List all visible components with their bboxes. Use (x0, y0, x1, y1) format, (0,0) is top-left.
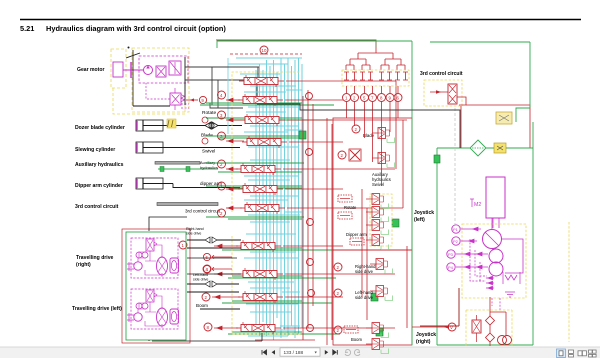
blade pilot valve (372, 128, 395, 143)
nav first-page button (262, 350, 267, 355)
gear motor pump circle (144, 66, 153, 75)
slewing cylinder rod line (163, 147, 240, 149)
green boundary right main vertical (411, 41, 413, 345)
svg-text:side drive: side drive (193, 278, 208, 282)
view mode icon two-up continuous (589, 350, 597, 357)
svg-text:Joystick: Joystick (416, 332, 436, 338)
travelling drive feed line top (149, 217, 187, 231)
valve row 1 rotate spool (239, 75, 284, 87)
gear motor yellow enclosure lower (113, 88, 185, 114)
left-drive pilot valve (370, 286, 393, 301)
circled 2 boom pilot (334, 326, 342, 334)
valve row 6 dipper spool (238, 183, 283, 195)
history forward icon (disabled) (354, 350, 360, 356)
travel drain line bottom (149, 333, 262, 341)
green filter rail (437, 147, 533, 149)
svg-text:side drive: side drive (355, 295, 374, 300)
travelling drive right counterbalance valve (146, 239, 154, 251)
svg-text:M2: M2 (474, 202, 481, 208)
dark link line row2 stub (212, 107, 243, 109)
slewing cylinder symbol (136, 142, 163, 153)
travelling drive green enclosure (126, 232, 186, 340)
svg-text:3rd control circuit: 3rd control circuit (75, 204, 119, 210)
green right rail vertical (532, 122, 534, 345)
gear motor work line A (185, 66, 260, 68)
svg-text:(right): (right) (76, 262, 91, 268)
svg-text:Rotate: Rotate (202, 110, 216, 116)
manifold fitting row (344, 72, 408, 80)
breather symbol (494, 143, 506, 153)
right drive work lines (187, 239, 241, 241)
header rule (20, 19, 581, 21)
3rd control circuit coupling bar (157, 203, 218, 206)
valve row 2 spool (238, 94, 283, 106)
svg-text:Auxiliary hydraulics: Auxiliary hydraulics (75, 162, 124, 168)
svg-text:Boom: Boom (351, 337, 362, 342)
page box dropdown caret (315, 352, 317, 354)
circled numbers right of bank (306, 93, 315, 332)
dark link line A to valve row1 (185, 67, 258, 77)
valve row 8 right-drive spool (236, 240, 281, 252)
right drive lower work line (187, 257, 237, 259)
green connector block row6 (392, 219, 399, 227)
gear motor valve 1 (156, 66, 166, 77)
rotate pilot valve 2 (366, 207, 389, 222)
svg-text:Slewing cylinder: Slewing cylinder (75, 147, 115, 153)
valve row 3 blade spool (240, 114, 285, 126)
rotate pilot group yellow enclosure (370, 194, 392, 246)
circled 2 right-drive pilot (334, 263, 342, 271)
nav next-page button (325, 350, 328, 355)
travelling drive right gearbox (170, 258, 179, 273)
right-drive pilot valve (370, 259, 393, 274)
auxiliary hydraulics green line (158, 168, 218, 170)
green tank return vertical (430, 42, 530, 108)
svg-text:Blade: Blade (201, 133, 213, 138)
travelling drive left internal lines (138, 296, 162, 328)
travelling drive left magenta enclosure (131, 289, 178, 329)
dark link line B to filter (257, 104, 460, 148)
rotate pilot valve 3 (366, 220, 389, 235)
gear motor valve 2 (169, 61, 181, 75)
manifold circled digits (345, 96, 400, 101)
dipper pilot valve (366, 235, 389, 250)
3rd control inlet arrow (430, 91, 448, 93)
joystick left red enclosure (333, 118, 412, 250)
joystick right red enclosure (333, 250, 412, 345)
travelling drive right charge pumps (136, 252, 142, 258)
boom black line (200, 308, 240, 310)
pump regulator dashed lines (470, 239, 487, 282)
circled 10 top (260, 46, 268, 54)
gear motor yellow enclosure large (132, 48, 189, 112)
boom pilot valve lower (366, 339, 389, 354)
manifold outlet drops below circles (347, 102, 399, 186)
valve row 4 swivel spool (242, 136, 287, 148)
rotate pilot block B (338, 212, 352, 219)
red work lines from valves to joystick side (283, 81, 407, 328)
green connector block row10 (376, 328, 383, 336)
circled V bottom (448, 323, 456, 331)
svg-text:Dipper arm: Dipper arm (346, 232, 367, 237)
rotate pilot valve 1 (366, 194, 389, 209)
travelling drive right magenta enclosure (131, 238, 178, 278)
svg-text:side drive: side drive (355, 269, 374, 274)
svg-text:Travelling drive (left): Travelling drive (left) (72, 306, 122, 312)
manifold circled numbers (343, 94, 403, 102)
nav last-page button (333, 350, 338, 355)
valve row 10 boom spool (238, 291, 283, 303)
dozer blade cylinder rod line (163, 125, 205, 127)
bottom assembly connecting lines (490, 297, 506, 346)
view mode icon two-up (578, 351, 586, 356)
gear motor lever (126, 53, 140, 58)
travelling drive right internal lines (138, 245, 162, 277)
bottom check diamond 2 (486, 333, 495, 342)
green connector block row2 (299, 131, 306, 139)
svg-text:P2: P2 (453, 239, 459, 244)
svg-text:P4: P4 (448, 265, 454, 270)
green return step (516, 108, 530, 122)
auxiliary hydraulics coupling bar (155, 162, 200, 165)
gear motor case drain line (132, 50, 134, 106)
svg-text:(left): (left) (414, 217, 425, 223)
gear motor shaft line (123, 69, 143, 71)
circled 9 gear motor (199, 96, 206, 103)
bottom toolbar bar (0, 347, 600, 358)
gear motor red pilot arrow (186, 99, 198, 101)
left drive shuttle symbol (205, 281, 217, 287)
green left rail vertical (436, 148, 438, 345)
oil cooler yellow block (496, 112, 512, 124)
small port circles left of valves (202, 117, 208, 144)
main pump circle (483, 230, 502, 249)
circled 2 blade pilot (352, 125, 360, 133)
3rd control valve body (448, 84, 457, 104)
svg-text:Swivel: Swivel (202, 149, 215, 154)
svg-text:P3: P3 (448, 252, 454, 257)
svg-text:Joystick: Joystick (414, 210, 434, 216)
svg-text:Gear motor: Gear motor (77, 67, 104, 73)
yellow dashed right border (568, 222, 570, 342)
valve row 11 spare spool (236, 322, 281, 334)
travelling drive left counterbalance valve (146, 290, 154, 302)
travelling drive left swash motor (157, 308, 168, 326)
gear motor yellow enclosure small (111, 49, 126, 88)
circled 2 swivel pilot (338, 151, 346, 159)
gear motor relief dashed line (146, 83, 170, 99)
pump drive shaft lines (492, 218, 496, 263)
pump yellow enclosure (462, 224, 526, 298)
red interconnect verticals center-right (255, 81, 407, 345)
svg-text:133 / 188: 133 / 188 (284, 350, 304, 355)
gear motor work line B (185, 80, 257, 104)
view mode icon single page (active) (557, 349, 566, 358)
boom pilot block (344, 326, 358, 333)
bottom check valve assembly enclosure (466, 310, 512, 346)
regulator arrows (486, 276, 494, 289)
svg-text:10: 10 (262, 48, 267, 53)
gear pump circle 1 (489, 249, 503, 263)
svg-text:Travelling drive: Travelling drive (76, 255, 114, 261)
travelling drive left gearbox (170, 309, 179, 324)
svg-text:5.21: 5.21 (20, 24, 34, 33)
manifold distribution tree (346, 48, 405, 70)
3rd control bracket (457, 97, 466, 105)
gray dashed boundary right (454, 108, 456, 228)
bottom gerotor pump (498, 336, 507, 345)
port labels P1-P4 (448, 227, 459, 270)
regulator spring (505, 275, 517, 280)
svg-text:3rd control circuit: 3rd control circuit (185, 209, 221, 214)
svg-text:Rotate: Rotate (344, 205, 357, 210)
manifold drop lines (347, 86, 399, 93)
circled 6 drive port (203, 253, 210, 260)
valve row 7 third-circuit spool (240, 202, 285, 214)
green supply rails (200, 103, 340, 334)
valve bank upper yellow enclosure (232, 72, 300, 212)
left drive lower work line (187, 273, 241, 275)
page number box (280, 348, 320, 356)
travelling drive left brake motor (134, 313, 142, 321)
green bottom rail (437, 344, 533, 346)
svg-text:Dipper arm cylinder: Dipper arm cylinder (75, 183, 123, 189)
left drive work lines (187, 283, 239, 285)
motor M2 body (486, 177, 505, 218)
cyan stub row extensions right (280, 90, 302, 326)
boom pilot valve (366, 323, 389, 338)
svg-text:Swivel: Swivel (372, 182, 384, 187)
yellow highlight fitting on dozer rod (167, 119, 176, 128)
svg-text:3rd control circuit: 3rd control circuit (420, 71, 463, 77)
gear motor magenta enclosure (139, 56, 188, 83)
valve row 5 auxiliary spool (236, 163, 281, 175)
cyan feed line top left (227, 58, 229, 134)
gear motor tank block (113, 62, 123, 77)
red riser to M2 (460, 106, 462, 148)
history back icon (disabled) (345, 350, 351, 356)
dipper pilot block (350, 238, 364, 245)
manifold feed line top (216, 40, 376, 48)
dipper arm cylinder rod line (163, 184, 240, 188)
valve row 9 left-drive spool (238, 268, 283, 280)
gear motor relief valve (170, 93, 181, 105)
dipper arm cylinder symbol (136, 178, 163, 189)
travelling drive right brake motor (134, 262, 142, 270)
swivel cross valve (350, 150, 360, 160)
circled number digits valve column (182, 93, 224, 330)
3rd control yellow enclosure (424, 80, 462, 106)
svg-text:(right): (right) (416, 339, 431, 345)
rotate link line (210, 103, 240, 108)
svg-text:V: V (450, 325, 453, 330)
auxiliary green fittings (160, 167, 164, 172)
gear pump circle 2 (489, 262, 503, 276)
tank symbol small (505, 292, 515, 297)
svg-text:hydraulics: hydraulics (200, 165, 218, 170)
circled numbers valve column (179, 91, 226, 331)
travelling drive right swash motor (157, 257, 168, 275)
circled 4 drive port (203, 265, 210, 272)
drive port arrow 2 (212, 268, 232, 270)
red pilot arrows left column (212, 98, 244, 330)
pump inlet arrows (456, 227, 488, 269)
svg-text:Dozer blade cylinder: Dozer blade cylinder (75, 125, 125, 131)
swivel pilot valve (372, 153, 395, 168)
view mode icon continuous (569, 350, 574, 357)
manifold yellow enclosure (342, 70, 409, 86)
svg-text:P1: P1 (453, 227, 459, 232)
gear motor outlet lines right (184, 57, 186, 105)
cyan bundle horizontals (228, 58, 302, 336)
green connector block row9 (371, 293, 378, 301)
bottom check diamond 1 (486, 316, 495, 325)
bottom relief valve (472, 320, 481, 333)
pump case drain (492, 298, 500, 310)
suction line red vertical (420, 288, 459, 326)
nav prev-page button (272, 350, 275, 355)
green boundary top (217, 40, 412, 42)
svg-text:side drive: side drive (186, 232, 201, 236)
blade line to valve bank (218, 125, 242, 127)
drive port arrow 1 (212, 256, 232, 258)
travelling drive red enclosure (122, 229, 190, 343)
red dashed pilot header (230, 53, 302, 55)
blade shuttle valve symbol (205, 122, 218, 129)
green small fitting (434, 155, 440, 163)
rotate pilot block A (338, 195, 352, 202)
circled 2 left-drive pilot (334, 289, 342, 297)
cyan pilot line bundle verticals (256, 58, 302, 340)
travelling drive left charge pumps (136, 303, 142, 309)
dozer blade cylinder symbol (136, 120, 163, 131)
port circles P1-P4 (447, 225, 460, 271)
filter diamond symbol (470, 140, 486, 156)
svg-text:Hydraulics diagram with 3rd co: Hydraulics diagram with 3rd control circ… (46, 24, 226, 33)
svg-text:Boom: Boom (196, 303, 208, 308)
right drive shuttle symbol (205, 237, 217, 243)
3rd control outlet line (466, 105, 530, 148)
svg-text:Right-hand: Right-hand (186, 227, 204, 231)
bottom feed red line (412, 326, 448, 328)
green boundary left drop (216, 41, 218, 48)
valve bank lower yellow enclosure (232, 236, 302, 334)
